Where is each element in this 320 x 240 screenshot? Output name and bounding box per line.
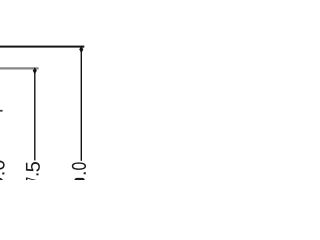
left arrowhead [33, 67, 37, 74]
horizontal level line (gray) [0, 67, 39, 69]
horizontal level line (black) [0, 46, 84, 48]
tick label 7.5: digit 7 (cut) [26, 178, 40, 183]
tick label 10.0: second digit 0 (cut) [74, 178, 84, 180]
tick label 10.0: digit 0 [72, 162, 86, 169]
right arrowhead [79, 46, 83, 53]
tick label 5.0: digit 5 (cut at corner) [0, 178, 3, 187]
tick label 5.0: decimal point [2, 173, 4, 175]
tick label 7.5: digit 5 [26, 162, 40, 171]
tick label 10.0: decimal point [84, 172, 86, 174]
tick label 7.5: decimal point [36, 173, 38, 175]
wire: left arrow stem [34, 74, 35, 161]
edge dash [0, 110, 3, 112]
tick label 5.0: digit 0 (cut at left edge) [0, 160, 5, 170]
wire: right arrow stem [81, 52, 82, 161]
